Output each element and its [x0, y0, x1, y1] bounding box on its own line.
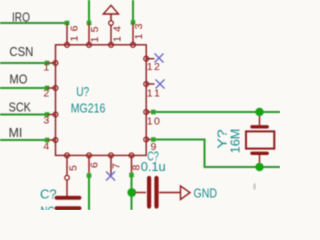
pin 16	[65, 23, 81, 47]
wire IRQ to pin 16	[0, 21, 69, 26]
pin 12	[144, 56, 160, 73]
pin 14	[109, 21, 124, 47]
svg-text:CSN: CSN	[9, 44, 33, 59]
svg-text:NC: NC	[41, 204, 55, 211]
pin 11	[144, 82, 160, 100]
wire SCK to pin 3	[0, 112, 49, 117]
no-connect X pin 7	[106, 172, 115, 181]
svg-text:6: 6	[89, 162, 101, 168]
hierarchical label GND arrow	[181, 186, 191, 200]
pin 6	[87, 153, 101, 176]
svg-text:SCK: SCK	[9, 100, 32, 115]
svg-text:16M: 16M	[227, 129, 242, 154]
svg-text:MG216: MG216	[71, 100, 106, 115]
wire CSN to pin 1	[0, 61, 49, 66]
svg-text:GND: GND	[194, 186, 218, 201]
svg-text:0.1u: 0.1u	[141, 159, 166, 174]
pin 9	[144, 137, 157, 153]
pin 5	[65, 153, 80, 180]
junction crystal bottom	[255, 163, 263, 171]
wire pin 8 down	[129, 173, 134, 210]
svg-text:11: 11	[147, 88, 160, 100]
pin 10	[144, 110, 160, 128]
svg-text:2: 2	[43, 88, 49, 100]
no-connect X pin 12	[155, 54, 164, 63]
svg-text:MI: MI	[9, 125, 23, 140]
svg-text:10: 10	[147, 116, 160, 128]
pin 3	[43, 112, 58, 126]
power symbol VCC at pin 14	[103, 5, 118, 20]
svg-text:C?: C?	[40, 186, 57, 201]
capacitor C2 0.1u	[135, 178, 181, 207]
pin 4	[43, 138, 58, 153]
svg-text:5: 5	[68, 165, 80, 171]
pin 13	[131, 23, 145, 48]
wire to pin 15	[87, 0, 92, 25]
pin 8	[129, 153, 142, 175]
svg-text:12: 12	[147, 61, 160, 73]
wire to pin 13	[131, 0, 136, 25]
IC U1 body	[56, 45, 147, 156]
capacitor C1 (below pin 5)	[57, 180, 80, 208]
pin 15	[87, 23, 101, 47]
crystal Y1	[246, 112, 274, 167]
svg-text:1: 1	[43, 62, 49, 74]
wire pin 10 to crystal top	[151, 110, 280, 115]
faint screenshot artifact	[253, 183, 256, 190]
wire MI to pin 4	[0, 138, 49, 143]
svg-text:7: 7	[111, 163, 123, 169]
wire pin 6 down	[87, 173, 92, 210]
wire pin 9 to crystal bottom	[151, 137, 280, 167]
wire MO to pin 2	[0, 86, 49, 91]
svg-text:U?: U?	[76, 84, 89, 99]
junction crystal top	[255, 108, 263, 116]
svg-text:3: 3	[43, 115, 49, 127]
pin 7	[109, 153, 123, 175]
junction pin 8 / C2	[127, 188, 136, 197]
no-connect X pin 11	[156, 80, 165, 89]
svg-text:4: 4	[43, 141, 49, 153]
pin 1	[43, 61, 58, 74]
svg-text:MO: MO	[9, 71, 27, 86]
pin 2	[43, 86, 58, 100]
